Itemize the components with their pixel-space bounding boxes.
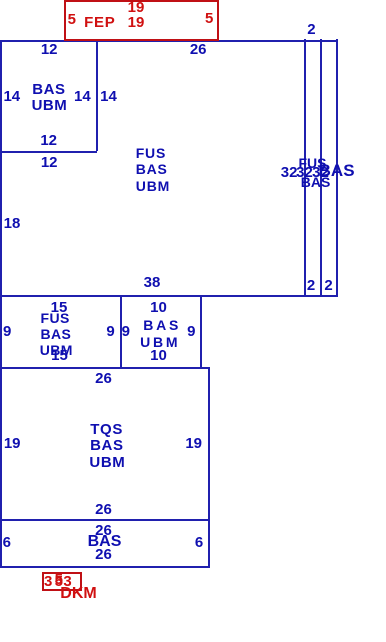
room DKM red box bottom edge xyxy=(42,589,82,591)
dimension 19 left height of room TQS BAS UBM xyxy=(4,436,21,451)
room DKM red box right edge xyxy=(80,572,82,591)
wire bottom edge of room BAS UBM (upper left) xyxy=(0,151,97,153)
dimension 18 lower left height of main room xyxy=(4,216,21,231)
wire top edge of room TQS BAS UBM xyxy=(0,367,210,369)
wire left edge of building outline xyxy=(0,40,2,568)
room name FEP xyxy=(84,15,115,30)
dimension 12 top width of room BAS UBM (upper left) xyxy=(41,42,58,57)
dimension 10 bottom width of room BAS UBM (middle row right) xyxy=(150,348,167,363)
dimension 32 height label (middle) of shafts xyxy=(296,165,313,180)
room FEP red box right edge xyxy=(217,0,219,40)
wire top edge of main outline xyxy=(0,40,337,42)
dimension 2 bottom width of left shaft xyxy=(307,278,315,293)
wire right edge of room BAS UBM (upper left) xyxy=(96,39,98,151)
room name BAS (middle row right, line 1) xyxy=(143,318,181,332)
dimension 19 bottom width of FEP xyxy=(128,15,145,30)
wire right edge of room BAS UBM (middle row) xyxy=(200,295,202,368)
room name UBM (middle row right, line 2) xyxy=(140,335,180,349)
dimension 12 bottom width of room BAS UBM (upper left) xyxy=(40,133,57,148)
dimension 19 top width of FEP xyxy=(128,0,145,15)
dimension 5 bottom width of room DKM xyxy=(55,574,63,589)
room name BAS (middle row left, line 2) xyxy=(41,327,72,341)
wire right edge of right shaft pair xyxy=(336,39,338,297)
room FEP red box bottom edge xyxy=(64,39,219,41)
dimension 32 height label (right) of shafts xyxy=(312,165,329,180)
dimension 3 left height of room DKM xyxy=(44,574,52,589)
dimension 9 left height of room BAS UBM (middle row right) xyxy=(122,324,130,339)
room DKM red box left edge xyxy=(42,572,44,591)
dimension 38 bottom width of main room xyxy=(144,275,161,290)
room name UBM (middle row left, line 3) xyxy=(40,343,73,357)
shaft name BAS (right shaft, large overlapping) xyxy=(319,162,355,179)
room name UBM (main room, line 3) xyxy=(136,179,170,193)
wire divider between room TQS BAS UBM and room BAS xyxy=(0,519,210,521)
dimension 26 bottom width of room BAS (bottom strip) xyxy=(95,547,112,562)
shaft name FUS (left shaft, line 1) xyxy=(299,156,327,170)
wire bottom edge of main room FUS BAS UBM xyxy=(0,295,337,297)
room name UBM (TQS room, line 3) xyxy=(89,455,125,470)
dimension 32 height label (leftmost) of shafts xyxy=(281,165,298,180)
dimension 5 left height of FEP xyxy=(68,12,76,27)
room name TQS (line 1) xyxy=(90,422,123,437)
dimension 14 upper left height of main room xyxy=(100,89,117,104)
room FEP red box top edge xyxy=(64,0,218,2)
dimension 14 left height of room BAS UBM (upper left) xyxy=(3,89,20,104)
wire right edge of rooms TQS and BAS xyxy=(208,367,210,567)
dimension 9 right height of room FUS BAS UBM (middle row left) xyxy=(106,324,114,339)
dimension 14 right height of room BAS UBM (upper left) xyxy=(74,89,91,104)
room name BAS (upper left room, line 1) xyxy=(32,82,65,97)
room name FUS (main room, line 1) xyxy=(136,146,166,160)
wire divider between rooms FUS BAS UBM and BAS UBM (middle row) xyxy=(120,295,122,368)
dimension 5 right height of FEP xyxy=(205,11,213,26)
room name BAS (main room, line 2) xyxy=(136,162,168,176)
dimension 19 right height of room TQS BAS UBM xyxy=(185,436,202,451)
dimension 6 right height of room BAS (bottom strip) xyxy=(195,535,203,550)
dimension 10 top width of room BAS UBM (middle row right) xyxy=(150,300,167,315)
dimension 5 top width of room DKM xyxy=(55,572,63,587)
dimension 15 bottom width of room FUS BAS UBM (middle row left) xyxy=(51,348,68,363)
dimension 6 left height of room BAS (bottom strip) xyxy=(3,535,11,550)
room DKM red box top edge xyxy=(42,572,82,574)
dimension 26 top width of main room FUS BAS UBM xyxy=(190,42,207,57)
dimension 2 bottom width of right shaft xyxy=(324,278,332,293)
dimension 26 bottom width of room TQS BAS UBM xyxy=(95,502,112,517)
room name DKM xyxy=(60,586,96,602)
dimension 3 right height of room DKM xyxy=(63,574,71,589)
wire left edge of right shaft pair xyxy=(304,39,306,297)
shaft name BAS (left shaft, line 2) xyxy=(301,175,331,189)
room name BAS (bottom strip) xyxy=(88,534,122,550)
room name BAS (TQS room, line 2) xyxy=(90,438,123,453)
room name FUS (middle row left, line 1) xyxy=(41,311,70,325)
dimension 12 inner top width of main room xyxy=(41,155,58,170)
wire middle divider of right shaft pair xyxy=(320,39,322,297)
wire bottom edge of room BAS xyxy=(0,566,210,568)
dimension 15 top width of room FUS BAS UBM (middle row left) xyxy=(51,300,68,315)
dimension 2 top width of left shaft xyxy=(307,22,315,37)
dimension 26 top width of room BAS (bottom strip) xyxy=(95,523,112,538)
dimension 26 top width of room TQS BAS UBM xyxy=(95,371,112,386)
room FEP red box left edge xyxy=(64,0,66,40)
dimension 9 left height of room FUS BAS UBM (middle row left) xyxy=(3,324,11,339)
room name UBM (upper left room, line 2) xyxy=(32,98,68,113)
dimension 9 right height of room BAS UBM (middle row right) xyxy=(187,324,195,339)
